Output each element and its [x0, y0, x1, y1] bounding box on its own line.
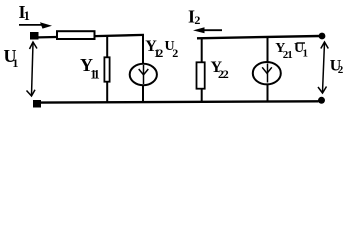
admittance Y22 branch — [197, 38, 205, 102]
svg-text:1: 1 — [303, 48, 309, 60]
voltage arrow U2 — [318, 42, 328, 93]
voltage arrow U1 — [27, 42, 38, 96]
label Y21U1 — [275, 41, 308, 61]
svg-text:2: 2 — [172, 46, 178, 60]
dependent current source Y21U1 — [253, 37, 281, 102]
terminal square top-left — [30, 32, 39, 40]
label Y12U2 — [145, 38, 178, 60]
wire top-left segment — [39, 36, 57, 39]
current arrow I1 — [19, 22, 52, 28]
svg-text:1: 1 — [287, 49, 293, 61]
svg-text:1: 1 — [12, 56, 18, 70]
svg-text:1: 1 — [94, 68, 100, 82]
svg-text:2: 2 — [338, 64, 344, 76]
label Y11 — [80, 55, 100, 82]
resistor (series impedance) — [57, 31, 95, 39]
bottom wire — [41, 101, 319, 102]
wire resistor to corner — [95, 35, 144, 36]
terminal dot bottom-right — [318, 97, 325, 104]
svg-text:2: 2 — [223, 67, 229, 81]
label I2 — [188, 6, 200, 27]
label U1 — [4, 46, 19, 70]
svg-text:2: 2 — [194, 13, 200, 27]
admittance Y11 branch — [104, 35, 109, 102]
wire top-right segment — [197, 36, 320, 38]
current arrow I2 — [193, 27, 222, 33]
label Y22 — [211, 59, 229, 81]
svg-text:1: 1 — [24, 9, 30, 23]
svg-text:2: 2 — [157, 46, 163, 60]
dependent current source Y12U2 — [130, 35, 157, 102]
label I1 — [19, 2, 30, 23]
terminal dot top-right — [319, 33, 326, 40]
label U2 — [330, 57, 344, 76]
terminal square bottom-left — [33, 100, 41, 108]
